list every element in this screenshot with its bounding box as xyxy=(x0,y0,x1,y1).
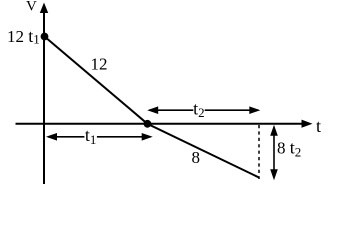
svg-text:t: t xyxy=(316,116,321,136)
svg-text:12 t1: 12 t1 xyxy=(7,26,40,47)
svg-text:V: V xyxy=(26,0,37,15)
line slope 8 xyxy=(147,124,259,178)
line slope 12 xyxy=(45,37,148,124)
svg-text:8 t2: 8 t2 xyxy=(277,138,301,160)
svg-text:t2: t2 xyxy=(193,99,205,121)
dashed drop line xyxy=(258,125,260,179)
t2 dimension arrow xyxy=(147,106,260,114)
t1 dimension arrow xyxy=(46,133,153,141)
svg-text:8: 8 xyxy=(192,148,201,167)
node at t1 crossing xyxy=(144,120,152,128)
t axis xyxy=(16,120,313,128)
V axis xyxy=(40,3,48,185)
t1 label xyxy=(84,128,97,145)
8t2 dimension arrow (vertical, double-headed) xyxy=(270,125,278,180)
node 12t1 on V axis xyxy=(41,33,49,41)
t2 label xyxy=(193,102,204,118)
svg-text:12: 12 xyxy=(91,55,108,74)
